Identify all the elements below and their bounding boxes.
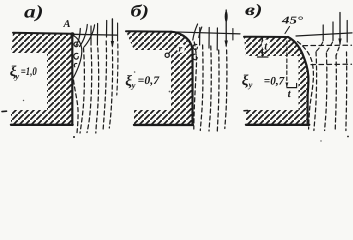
connector dash 2 bbox=[327, 42, 333, 52]
label xi_y = 0,7 bbox=[125, 74, 160, 90]
corner fan streamline 2 bbox=[80, 25, 88, 47]
lower dimension step bbox=[287, 84, 297, 88]
dashed streamline 3 bbox=[87, 48, 92, 133]
corner fan streamline 1 bbox=[76, 29, 80, 46]
comb streamline dash 3 bbox=[106, 21, 108, 38]
dimension t line bbox=[261, 39, 263, 57]
svg-text:б): б) bbox=[131, 2, 150, 21]
dashed streamline 2 bbox=[80, 48, 84, 133]
comb streamline dash 1 bbox=[90, 26, 92, 45]
svg-text:y: y bbox=[248, 80, 253, 90]
dashed streamline wall-hug bbox=[74, 80, 79, 133]
radius center mark bbox=[165, 53, 169, 57]
svg-text:r: r bbox=[179, 45, 183, 55]
wall bottom edge bbox=[246, 124, 309, 126]
leader line for 45 deg bbox=[285, 27, 290, 34]
dashed streamline 5 bbox=[345, 52, 348, 131]
radius arrow bbox=[169, 45, 177, 53]
rounded edge arc bbox=[171, 32, 193, 57]
wall hatching panel b bbox=[126, 32, 192, 126]
comb streamline dash 2 bbox=[332, 22, 334, 41]
vortex curl 2 bbox=[74, 53, 78, 59]
lower dimension dashed line bbox=[286, 41, 288, 87]
comb streamline dash 2 bbox=[96, 24, 98, 46]
suction plane line (comb) bbox=[296, 33, 352, 36]
label xi_y = 0,7 bbox=[242, 73, 286, 90]
wall top surface line bbox=[13, 33, 72, 34]
dashed streamline 4 bbox=[335, 55, 336, 131]
connector dash 3 bbox=[336, 47, 339, 55]
wall hatching panel a bbox=[11, 33, 73, 125]
svg-text:=0,7: =0,7 bbox=[264, 75, 286, 87]
dashed streamline 2 bbox=[314, 52, 317, 131]
flow arrow down bbox=[111, 19, 113, 46]
svg-text:y: y bbox=[131, 80, 136, 90]
svg-text:=1,0: =1,0 bbox=[21, 66, 37, 78]
dashed streamline 5 bbox=[103, 41, 106, 131]
horizontal dashed level line 2 bbox=[311, 63, 352, 65]
svg-text:в): в) bbox=[245, 2, 263, 19]
speck dot bbox=[347, 136, 349, 138]
comb streamline dash 3 bbox=[216, 28, 218, 50]
vortex curl 1 bbox=[74, 42, 78, 47]
comb streamline dash 3 bbox=[346, 21, 348, 43]
suction plane line (comb) bbox=[72, 33, 117, 36]
svg-text:A: A bbox=[63, 19, 71, 30]
node A (edge point) bbox=[70, 32, 74, 36]
svg-text:а): а) bbox=[24, 2, 44, 22]
comb streamline dash 4 bbox=[232, 29, 234, 41]
horizontal dashed level line 1 bbox=[303, 44, 352, 46]
separation bubble boundary bbox=[73, 35, 82, 78]
dashed streamline 4 bbox=[96, 48, 99, 133]
small dash left of bottom band bbox=[2, 110, 7, 112]
dashed streamline 3 bbox=[209, 46, 211, 131]
dashed streamline 4 bbox=[217, 50, 219, 131]
dashed streamline 7 short bbox=[117, 44, 118, 95]
vortex curl 1 bbox=[193, 44, 197, 49]
flow arrow bbox=[339, 13, 341, 45]
speck dot bbox=[73, 136, 75, 138]
dashed streamline 5 bbox=[225, 50, 227, 129]
dashed streamline 3 bbox=[325, 53, 327, 131]
comb streamline dash 1 bbox=[322, 25, 324, 41]
paper specks bbox=[23, 71, 322, 142]
dimension t tick bbox=[258, 56, 269, 58]
connector dash 1 bbox=[317, 42, 323, 51]
chamfered rounded edge bbox=[288, 37, 308, 125]
dashed streamline 2 bbox=[200, 45, 203, 131]
wall bottom edge bbox=[11, 124, 73, 126]
label xi_y = 1,0 bbox=[10, 64, 37, 81]
comb streamline dash 2 bbox=[208, 28, 210, 49]
wall vertical face bbox=[71, 34, 73, 125]
radius letter r bbox=[177, 43, 185, 53]
comb streamline dash 1 bbox=[199, 28, 201, 46]
svg-text:y: y bbox=[14, 71, 19, 81]
dashed streamline 6 bbox=[109, 50, 112, 128]
vortex curl 3 bbox=[74, 63, 77, 66]
dimension t letter bbox=[262, 40, 270, 51]
svg-text:45°: 45° bbox=[281, 16, 305, 27]
wall bottom edge bbox=[134, 124, 193, 126]
dashed streamline edge-hug bbox=[298, 42, 314, 130]
svg-text:=0,7: =0,7 bbox=[138, 75, 161, 87]
flow arrow bbox=[225, 10, 227, 46]
wall hatching panel v bbox=[244, 37, 308, 125]
suction plane line (comb) bbox=[171, 32, 240, 34]
wall top surface line bbox=[244, 36, 288, 38]
fan streamline above arc 1 bbox=[193, 24, 198, 40]
comb streamline dash 4 bbox=[117, 23, 119, 41]
wall vertical face bbox=[191, 57, 193, 125]
wall top surface line bbox=[126, 30, 171, 32]
dashed streamline wall-hug bbox=[194, 42, 197, 129]
corner fan streamline 3 bbox=[84, 25, 95, 47]
vortex curl 2 bbox=[193, 54, 198, 60]
fan streamline above arc 2 bbox=[199, 27, 202, 38]
small dash left of bottom band bbox=[244, 110, 248, 112]
